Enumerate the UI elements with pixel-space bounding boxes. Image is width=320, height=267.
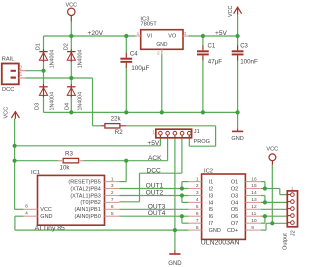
- svg-text:(AIN0)PB0: (AIN0)PB0: [75, 214, 101, 220]
- svg-text:I4: I4: [209, 200, 214, 206]
- svg-text:J2: J2: [291, 230, 297, 236]
- svg-text:+5V: +5V: [215, 30, 228, 37]
- svg-text:I6: I6: [209, 214, 214, 220]
- svg-text:5: 5: [111, 211, 114, 217]
- svg-text:1: 1: [137, 31, 140, 37]
- svg-text:O1: O1: [231, 180, 238, 186]
- svg-text:C3: C3: [240, 44, 248, 50]
- svg-text:100µF: 100µF: [131, 65, 149, 72]
- svg-text:R2: R2: [115, 129, 123, 136]
- svg-text:9: 9: [251, 225, 254, 231]
- svg-text:2: 2: [157, 51, 160, 57]
- svg-text:VCC: VCC: [228, 6, 234, 17]
- svg-text:3: 3: [196, 190, 199, 196]
- svg-text:16: 16: [251, 176, 257, 182]
- svg-text:4: 4: [25, 211, 28, 217]
- svg-text:OUT4: OUT4: [148, 210, 166, 217]
- svg-text:6: 6: [111, 204, 114, 210]
- svg-text:O2: O2: [231, 186, 238, 192]
- svg-text:2: 2: [196, 183, 199, 189]
- svg-text:GND: GND: [168, 261, 182, 267]
- svg-text:8: 8: [25, 204, 28, 210]
- svg-text:1N4004: 1N4004: [77, 50, 83, 69]
- svg-text:GND: GND: [231, 136, 243, 142]
- svg-text:1N4004: 1N4004: [77, 92, 83, 111]
- svg-text:(RESET)PB5: (RESET)PB5: [68, 179, 100, 185]
- svg-text:O3: O3: [231, 193, 238, 199]
- svg-text:I3: I3: [209, 193, 214, 199]
- svg-text:14: 14: [251, 190, 257, 196]
- svg-text:PROG: PROG: [194, 139, 210, 145]
- svg-text:13: 13: [251, 197, 257, 203]
- svg-text:5: 5: [196, 204, 199, 210]
- svg-text:2: 2: [111, 190, 114, 196]
- svg-text:R3: R3: [65, 150, 73, 157]
- svg-text:GND: GND: [209, 228, 221, 234]
- svg-text:12: 12: [251, 204, 257, 210]
- svg-text:1: 1: [111, 176, 114, 182]
- svg-text:7: 7: [196, 218, 199, 224]
- svg-text:7805T: 7805T: [140, 21, 157, 27]
- svg-text:VCC: VCC: [3, 107, 9, 119]
- svg-text:15: 15: [251, 183, 257, 189]
- svg-text:ACK: ACK: [148, 155, 162, 162]
- svg-text:D2: D2: [64, 43, 70, 50]
- svg-text:DCC: DCC: [2, 87, 14, 93]
- svg-text:+20V: +20V: [88, 30, 104, 37]
- svg-text:IC2: IC2: [204, 169, 213, 175]
- svg-text:(AIN1)PB1: (AIN1)PB1: [75, 207, 101, 213]
- svg-text:RAIL: RAIL: [2, 56, 15, 62]
- svg-text:I1: I1: [209, 180, 214, 186]
- svg-text:1: 1: [152, 129, 155, 134]
- svg-text:OUT1: OUT1: [146, 183, 164, 190]
- svg-text:2: 2: [19, 65, 22, 71]
- svg-text:GND: GND: [40, 214, 52, 220]
- svg-text:1: 1: [196, 176, 199, 182]
- svg-text:VCC: VCC: [266, 147, 278, 153]
- svg-text:47µF: 47µF: [208, 59, 222, 66]
- svg-text:C4: C4: [130, 52, 138, 58]
- svg-text:11: 11: [251, 211, 256, 217]
- svg-text:I2: I2: [209, 186, 214, 192]
- svg-text:3: 3: [184, 31, 187, 37]
- svg-text:C1: C1: [208, 44, 216, 50]
- svg-text:O7: O7: [231, 221, 238, 227]
- svg-text:VO: VO: [168, 34, 177, 40]
- svg-text:22k: 22k: [111, 116, 122, 123]
- svg-text:J1: J1: [194, 129, 200, 135]
- svg-text:GND: GND: [156, 42, 168, 48]
- svg-text:(XTAL1)PB3: (XTAL1)PB3: [70, 193, 100, 199]
- svg-text:(T0)PB2: (T0)PB2: [80, 200, 100, 206]
- svg-text:1N4004: 1N4004: [50, 50, 56, 69]
- svg-text:D4: D4: [65, 103, 71, 110]
- svg-text:D1: D1: [36, 43, 42, 50]
- svg-text:+5V: +5V: [147, 140, 160, 147]
- svg-text:6: 6: [196, 211, 199, 217]
- svg-text:VCC: VCC: [40, 207, 52, 213]
- svg-text:1: 1: [291, 186, 294, 191]
- svg-text:ULN2003AN: ULN2003AN: [201, 240, 240, 247]
- svg-text:OUT2: OUT2: [146, 190, 164, 197]
- svg-text:10k: 10k: [60, 165, 71, 172]
- svg-text:ATTiny 85: ATTiny 85: [35, 225, 65, 232]
- svg-text:O6: O6: [231, 214, 238, 220]
- svg-text:Output: Output: [283, 233, 289, 250]
- svg-text:100nF: 100nF: [240, 59, 258, 66]
- svg-text:DCC: DCC: [147, 168, 162, 175]
- svg-text:VI: VI: [147, 34, 153, 40]
- svg-text:1N4004: 1N4004: [50, 92, 56, 111]
- svg-text:7: 7: [111, 197, 114, 203]
- svg-text:I5: I5: [209, 207, 214, 213]
- svg-text:CD+: CD+: [227, 228, 238, 234]
- svg-text:10: 10: [251, 218, 257, 224]
- svg-text:VCC: VCC: [65, 2, 77, 8]
- svg-text:IC1: IC1: [31, 170, 40, 176]
- svg-text:8: 8: [196, 225, 199, 231]
- svg-text:O5: O5: [231, 207, 238, 213]
- svg-text:3: 3: [111, 183, 114, 189]
- svg-text:4: 4: [196, 197, 199, 203]
- svg-text:(XTAL2)PB4: (XTAL2)PB4: [70, 186, 100, 192]
- svg-text:D3: D3: [35, 103, 41, 110]
- svg-text:I7: I7: [209, 221, 214, 227]
- svg-text:1: 1: [19, 72, 22, 78]
- svg-text:O4: O4: [231, 200, 238, 206]
